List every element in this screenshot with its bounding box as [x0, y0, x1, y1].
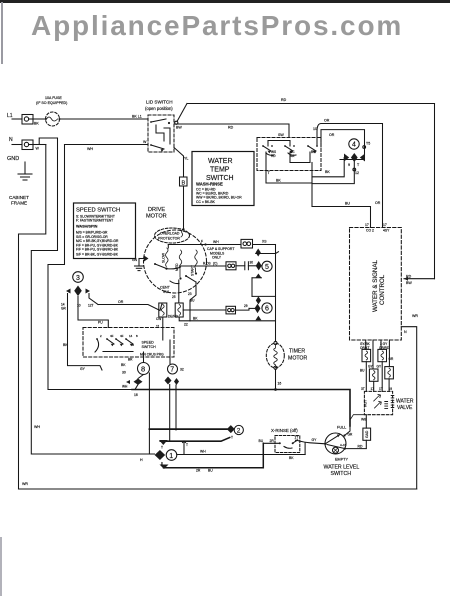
wire motor to cap line circle5: [167, 266, 227, 269]
wire valve feed 2: [372, 340, 374, 369]
circle 5: [262, 261, 272, 271]
labels RD BW: [406, 275, 412, 286]
wire RD BW into signal control: [404, 278, 435, 280]
svg-text:3: 3: [76, 275, 80, 282]
svg-text:EMPTY: EMPTY: [335, 458, 349, 462]
svg-text:2R: 2R: [196, 469, 201, 473]
wire box3 to valve: [388, 379, 390, 392]
timer contact labels: [100, 334, 138, 338]
wire box2 side to circle6: [183, 309, 226, 311]
wire center drop PU: [78, 297, 108, 328]
svg-text:F: FAST/INTERMITTENT: F: FAST/INTERMITTENT: [76, 218, 113, 222]
svg-text:BW: BW: [311, 150, 316, 154]
OR wire from circle3 area into box1: [98, 304, 162, 311]
svg-text:BK: BK: [289, 456, 294, 460]
triangle below circle 5: [255, 274, 261, 278]
triangle left of diamond 8: [126, 380, 130, 384]
wire OR to right column: [321, 124, 383, 228]
svg-text:1T: 1T: [295, 436, 299, 440]
svg-text:SWITCH: SWITCH: [142, 345, 157, 349]
svg-text:WATER: WATER: [208, 158, 233, 165]
label WATER & SIGNAL CONTROL vertical: [372, 260, 386, 312]
svg-text:MOTOR: MOTOR: [146, 214, 167, 220]
label SPEED SWITCH legend: [76, 208, 120, 257]
svg-text:GR: GR: [348, 433, 353, 437]
svg-text:TIMER: TIMER: [289, 349, 305, 355]
svg-text:4F: 4F: [120, 334, 124, 338]
circle 7: [168, 364, 178, 374]
wire circle 8 to diamond to bottom line: [135, 375, 144, 390]
wire circle 1 right: [177, 454, 305, 456]
diamond above circle 5: [256, 249, 261, 257]
svg-text:WR: WR: [22, 482, 28, 486]
labels 14 GR: [61, 303, 66, 311]
svg-text:H: H: [140, 458, 143, 462]
labels T B on circle1 diamond: [161, 446, 163, 466]
top border bar: [0, 0, 450, 3]
label OVERLOAD PROTECTOR: [158, 232, 180, 241]
svg-text:BU: BU: [208, 469, 213, 473]
svg-text:(IF SO EQUIPPED): (IF SO EQUIPPED): [36, 101, 67, 105]
svg-text:BU: BU: [360, 369, 365, 373]
svg-text:CC = BK-BK: CC = BK-BK: [196, 200, 216, 204]
label CAP & SUPPORT MODELS ONLY: [207, 247, 234, 260]
wire bottom border (W): [19, 488, 417, 490]
svg-text:CO 2: CO 2: [366, 229, 374, 233]
speed switch legend box: [74, 203, 136, 259]
motor top terminal: [181, 228, 185, 237]
svg-text:RD: RD: [271, 154, 276, 158]
svg-text:1T: 1T: [379, 387, 383, 391]
svg-text:WH: WH: [200, 450, 206, 454]
wire BW from lid switch: [174, 124, 289, 138]
svg-text:W: W: [36, 147, 40, 151]
circle 1: [166, 450, 177, 461]
svg-text:17: 17: [371, 387, 375, 391]
wire YL from lid switch down: [174, 148, 184, 178]
svg-text:BW: BW: [406, 281, 412, 285]
svg-text:4SY: 4SY: [383, 229, 390, 233]
svg-text:2R: 2R: [270, 439, 275, 443]
motor lead 25 down: [178, 280, 180, 303]
lid switch contacts: [150, 119, 178, 152]
labels BU DS: [203, 262, 217, 266]
wire right border down: [434, 104, 436, 279]
label BK 22: [184, 317, 198, 327]
svg-text:RD: RD: [228, 126, 234, 130]
svg-text:W8: W8: [361, 418, 366, 422]
svg-text:WATER: WATER: [396, 399, 414, 405]
svg-text:WH: WH: [87, 147, 93, 151]
circle 3: [73, 272, 84, 283]
wire staircase B (WH): [31, 138, 154, 454]
label LID SWITCH (open position): [145, 100, 173, 112]
water level switch inner screw: [333, 447, 339, 453]
triangle on BU loop: [160, 465, 169, 470]
label DRIVE MOTOR: [146, 207, 167, 220]
labels 9 T 12: [348, 163, 360, 175]
svg-text:T: T: [231, 436, 233, 440]
capacitor box OO low: [226, 306, 236, 314]
labels at box top pins: [365, 223, 390, 233]
svg-text:N: N: [404, 330, 407, 334]
connector GAD box: [363, 428, 371, 440]
slow winding terminal dot: [165, 268, 167, 270]
svg-text:4: 4: [352, 142, 356, 149]
svg-text:WH: WH: [34, 425, 40, 429]
svg-text:OR: OR: [324, 119, 330, 123]
svg-text:DE/RD: DE/RD: [168, 315, 179, 319]
valve solenoid symbols: [374, 394, 394, 408]
watermark title: [31, 10, 403, 42]
junction dot: [274, 388, 277, 391]
arrowhead into signal control: [404, 277, 408, 281]
wire above circle 6: [252, 295, 276, 297]
svg-text:RD: RD: [406, 275, 412, 279]
wire thick run to water level area: [132, 390, 350, 427]
svg-text:N: N: [9, 137, 13, 143]
wire timer to circle 7: [169, 340, 171, 364]
connector resistor box 2: [175, 303, 183, 317]
svg-text:GN: GN: [132, 258, 138, 262]
wire B box to motor: [183, 186, 185, 228]
tick at 184: [183, 441, 186, 454]
switch contact W/S: [262, 145, 276, 158]
svg-text:29: 29: [244, 304, 248, 308]
circle 4 connector box: [321, 130, 365, 160]
svg-text:CONTROL: CONTROL: [379, 274, 386, 305]
diamond left of circle 6: [255, 304, 261, 313]
svg-text:SW: SW: [163, 290, 169, 294]
svg-text:25: 25: [172, 295, 176, 299]
svg-text:3T: 3T: [361, 387, 365, 391]
svg-text:4F: 4F: [110, 334, 114, 338]
svg-text:DRIVE: DRIVE: [148, 207, 165, 213]
wire oo low to diamond 6: [236, 308, 250, 310]
svg-text:OR: OR: [329, 133, 335, 137]
bridge wire contacts: [268, 141, 290, 147]
label WATER LEVEL SWITCH: [324, 465, 360, 478]
svg-text:GR: GR: [61, 307, 66, 311]
wire RD top line: [187, 103, 435, 105]
diamond above circle 6: [256, 296, 261, 304]
diamond below circle 8: [134, 379, 143, 385]
wire BU from box to signal control: [312, 207, 371, 228]
label CABINET FRAME: [9, 195, 29, 206]
svg-text:10A FUSE: 10A FUSE: [45, 96, 62, 100]
diamond below circle 3: [74, 286, 82, 297]
svg-text:10: 10: [313, 127, 317, 131]
wire timer motor to bottom junction: [275, 369, 277, 389]
left page edge mark: [1, 2, 3, 64]
junction dot F: [204, 243, 206, 245]
svg-text:BR: BR: [128, 358, 133, 362]
labels 2R BU: [196, 469, 213, 473]
med winding: [179, 250, 182, 277]
labels 23 BU: [188, 292, 195, 303]
svg-text:FULL: FULL: [337, 426, 346, 430]
svg-text:SWITCH: SWITCH: [331, 471, 352, 477]
x-rinse dashed box: [275, 436, 300, 453]
svg-text:X-RINSE (off): X-RINSE (off): [271, 428, 298, 433]
diamond left of circle 5: [256, 261, 262, 270]
svg-text:16: 16: [278, 382, 282, 386]
capacitor box OO mid: [226, 262, 236, 270]
connector coil box 3: [385, 367, 394, 379]
circle 4: [349, 139, 359, 149]
svg-text:22: 22: [184, 323, 188, 327]
label WATER VALVE: [396, 399, 414, 412]
svg-text:SW: SW: [278, 133, 284, 137]
switch contact BW: [307, 145, 318, 154]
svg-text:W: W: [143, 140, 147, 144]
wire timer to circle 8: [143, 352, 145, 362]
svg-text:MED: MED: [175, 263, 179, 271]
circle 8: [138, 363, 150, 375]
svg-text:GY: GY: [312, 438, 318, 442]
svg-text:T5: T5: [366, 142, 370, 146]
svg-text:SPEED SWITCH: SPEED SWITCH: [76, 208, 120, 214]
wire to capacitor bars: [236, 265, 245, 267]
tick at column: [276, 252, 279, 254]
svg-text:A-15: A-15: [340, 443, 347, 447]
wire valve feed 4: [388, 340, 390, 367]
svg-text:8: 8: [141, 365, 145, 374]
timer motor winding: [274, 345, 278, 366]
connector coil box 1: [362, 349, 371, 361]
wire box2 bottom run to column: [179, 317, 275, 321]
wire right drop to OR: [89, 294, 98, 305]
wire full link to valve box: [350, 415, 364, 420]
wire valve feed 1: [365, 340, 367, 349]
svg-text:GY: GY: [80, 367, 86, 371]
wire staircase A (W): [19, 145, 46, 490]
svg-text:SLOW: SLOW: [162, 252, 166, 263]
svg-text:16: 16: [134, 393, 138, 397]
svg-text:START: START: [191, 265, 195, 276]
svg-text:WR: WR: [412, 314, 418, 318]
wire L1 to fuse: [33, 118, 46, 120]
svg-text:BK: BK: [325, 170, 330, 174]
start lead down: [190, 282, 196, 321]
svg-text:9: 9: [348, 163, 350, 167]
svg-text:2: 2: [237, 428, 241, 435]
svg-text:12T: 12T: [88, 304, 94, 308]
labels GY GY OR BU: [360, 357, 394, 373]
svg-text:BK: BK: [34, 122, 39, 126]
wire N step up branch: [39, 138, 57, 145]
svg-text:OR: OR: [389, 357, 394, 361]
svg-text:TEMP: TEMP: [210, 167, 230, 174]
svg-text:F: F: [201, 240, 203, 244]
med winding terminal dot: [179, 277, 181, 279]
svg-text:BK L1: BK L1: [132, 115, 142, 119]
svg-text:BK: BK: [193, 317, 198, 321]
triangle right of diamond 3: [86, 289, 91, 294]
svg-text:WASH/SPIN: WASH/SPIN: [76, 225, 98, 229]
wire left drop GR: [68, 294, 103, 371]
overload protector dashed oval: [155, 228, 190, 243]
wire above circle 5 to column: [256, 253, 276, 255]
triangle left of diamond 3: [66, 289, 71, 294]
wire valve feed 3: [380, 340, 382, 349]
svg-text:30: 30: [250, 261, 254, 265]
capacitor bars: [245, 262, 249, 270]
wire circle1 line up to xrinse out: [304, 443, 306, 455]
wire circle2 feed: [149, 428, 226, 430]
svg-text:17: 17: [383, 223, 387, 227]
svg-text:BK: BK: [121, 363, 126, 367]
slow winding: [166, 248, 169, 267]
wire box2 to valve: [381, 362, 383, 392]
svg-text:FRAME: FRAME: [11, 201, 27, 206]
svg-text:1: 1: [169, 453, 173, 460]
start winding: [195, 250, 198, 272]
svg-text:BU: BU: [345, 202, 350, 206]
svg-text:BK: BK: [276, 179, 281, 183]
terminal plug N: [22, 140, 33, 150]
connector coil box 4: [369, 369, 378, 381]
wire full contact up: [345, 426, 351, 436]
triangle left end mid rail: [159, 440, 168, 445]
centrifugal switch levers: [154, 263, 196, 284]
water temp switch box: [192, 152, 254, 206]
wire box1 to valve: [365, 362, 367, 392]
svg-text:GY: GY: [377, 365, 382, 369]
svg-text:OR: OR: [375, 201, 381, 205]
svg-text:AA: AA: [290, 154, 295, 158]
diamond into motor left: [144, 256, 149, 262]
svg-text:17: 17: [365, 223, 369, 227]
connector B box: [180, 177, 188, 187]
svg-text:BK: BK: [63, 343, 68, 347]
svg-text:HOT: HOT: [364, 400, 368, 407]
water level switch levers: [324, 434, 346, 449]
diamond left of circle 1: [155, 450, 166, 460]
wire contact3 up to OR: [317, 124, 321, 147]
wire below circle 5: [252, 277, 261, 279]
svg-text:CABINET: CABINET: [9, 195, 29, 200]
wire WH capacitor run: [168, 244, 241, 246]
switch contact CC: [284, 145, 296, 158]
wire N out: [33, 144, 46, 146]
wire contact1 down BK: [266, 152, 312, 183]
circle 2: [234, 425, 243, 434]
wire WH top run to lid switch: [65, 144, 149, 146]
diamond left of circle 2: [227, 425, 235, 433]
wire circle 7 down: [170, 385, 176, 442]
connector coil box 2: [378, 349, 387, 361]
circle 6: [262, 303, 272, 313]
svg-text:T: T: [161, 446, 163, 450]
wire BK to lid switch: [60, 118, 149, 120]
wire lid switch to RD top line: [177, 104, 187, 122]
svg-text:32: 32: [180, 368, 184, 372]
wire to diamond 5: [248, 265, 255, 267]
start winding terminal dot: [195, 272, 197, 274]
svg-text:BW: BW: [176, 126, 182, 130]
console SW dashed box: [257, 138, 321, 171]
timer motor top terminal: [274, 341, 277, 344]
svg-text:F/F = BR-PU, GY-BN/RD-BK: F/F = BR-PU, GY-BN/RD-BK: [76, 248, 119, 252]
svg-text:OR: OR: [118, 300, 124, 304]
svg-text:T: T: [186, 443, 188, 447]
wire box1 down: [162, 317, 164, 340]
label TIMER MOTOR: [288, 349, 307, 362]
wire right column main: [275, 245, 277, 342]
label 10A FUSE (IF SO EQUIPPED): [36, 96, 67, 105]
svg-text:5: 5: [265, 264, 269, 271]
svg-text:WASH-RINSE: WASH-RINSE: [196, 182, 223, 187]
wire BU into x-rinse: [263, 442, 279, 444]
labels under box bottom: [360, 342, 390, 350]
svg-text:XS: XS: [262, 240, 267, 244]
wire slow winding drop: [167, 245, 169, 249]
capacitor box OO top: [241, 239, 253, 248]
wire mid rail: [160, 438, 229, 442]
svg-text:YL: YL: [184, 157, 188, 161]
svg-text:PROTECTOR: PROTECTOR: [158, 237, 180, 241]
svg-text:8: 8: [136, 334, 138, 338]
label SPEED SWITCH inner: [142, 341, 157, 349]
svg-text:T: T: [268, 171, 271, 175]
svg-text:PU: PU: [98, 321, 103, 325]
svg-text:R.DS: R.DS: [203, 262, 211, 266]
wire box4 to valve: [373, 381, 375, 391]
label CENT SW: [160, 286, 171, 294]
wire BK down from contacts to circle4 diamonds: [311, 163, 313, 207]
wire RD from switch to GAD: [345, 448, 367, 450]
bottom-left page edge mark: [0, 537, 2, 596]
fuse F1 (10A, dashed circle): [45, 112, 61, 126]
wire into diamond 6: [249, 307, 255, 309]
wire circle 8 down to circle 1 area: [148, 373, 150, 454]
svg-text:7: 7: [170, 367, 174, 374]
wire x-rinse out to water level switch: [298, 441, 326, 444]
wire cap box right: [253, 244, 276, 246]
svg-text:2: 2: [100, 334, 102, 338]
svg-text:19: 19: [389, 387, 393, 391]
diamonds below circle 7: [165, 377, 180, 386]
water signal control dashed box: [350, 228, 402, 341]
wire L1 lead: [12, 118, 22, 120]
water temp legend lines: [196, 188, 242, 204]
wire GAD to RD line: [365, 440, 367, 448]
svg-text:L1: L1: [7, 113, 13, 119]
svg-text:WATER & SIGNAL: WATER & SIGNAL: [372, 260, 379, 312]
wire valve bottom to GAD box: [365, 415, 367, 428]
labels valve pins 3T 17 1T 19: [361, 387, 392, 391]
terminal plug L1: [22, 115, 33, 125]
wire BU loop under circle 1: [164, 443, 264, 467]
svg-text:LID SWITCH: LID SWITCH: [146, 100, 173, 105]
ground symbol cabinet frame: [18, 162, 32, 180]
x-rinse contacts: [279, 440, 298, 448]
wire contact2 to contact3: [290, 152, 310, 163]
svg-text:CW: CW: [156, 317, 161, 321]
timer contacts: [95, 338, 134, 352]
svg-text:MOTOR: MOTOR: [288, 355, 307, 361]
svg-text:ONLY: ONLY: [212, 256, 222, 260]
svg-text:GND: GND: [7, 156, 19, 162]
ground stub left of motor: [135, 259, 145, 271]
svg-text:12: 12: [355, 171, 359, 175]
lid switch dashed box: [148, 115, 174, 152]
svg-text:23: 23: [188, 292, 192, 296]
wire link c5 to c6 row: [251, 278, 253, 297]
svg-text:WH: WH: [122, 385, 128, 389]
svg-text:6: 6: [265, 306, 269, 313]
